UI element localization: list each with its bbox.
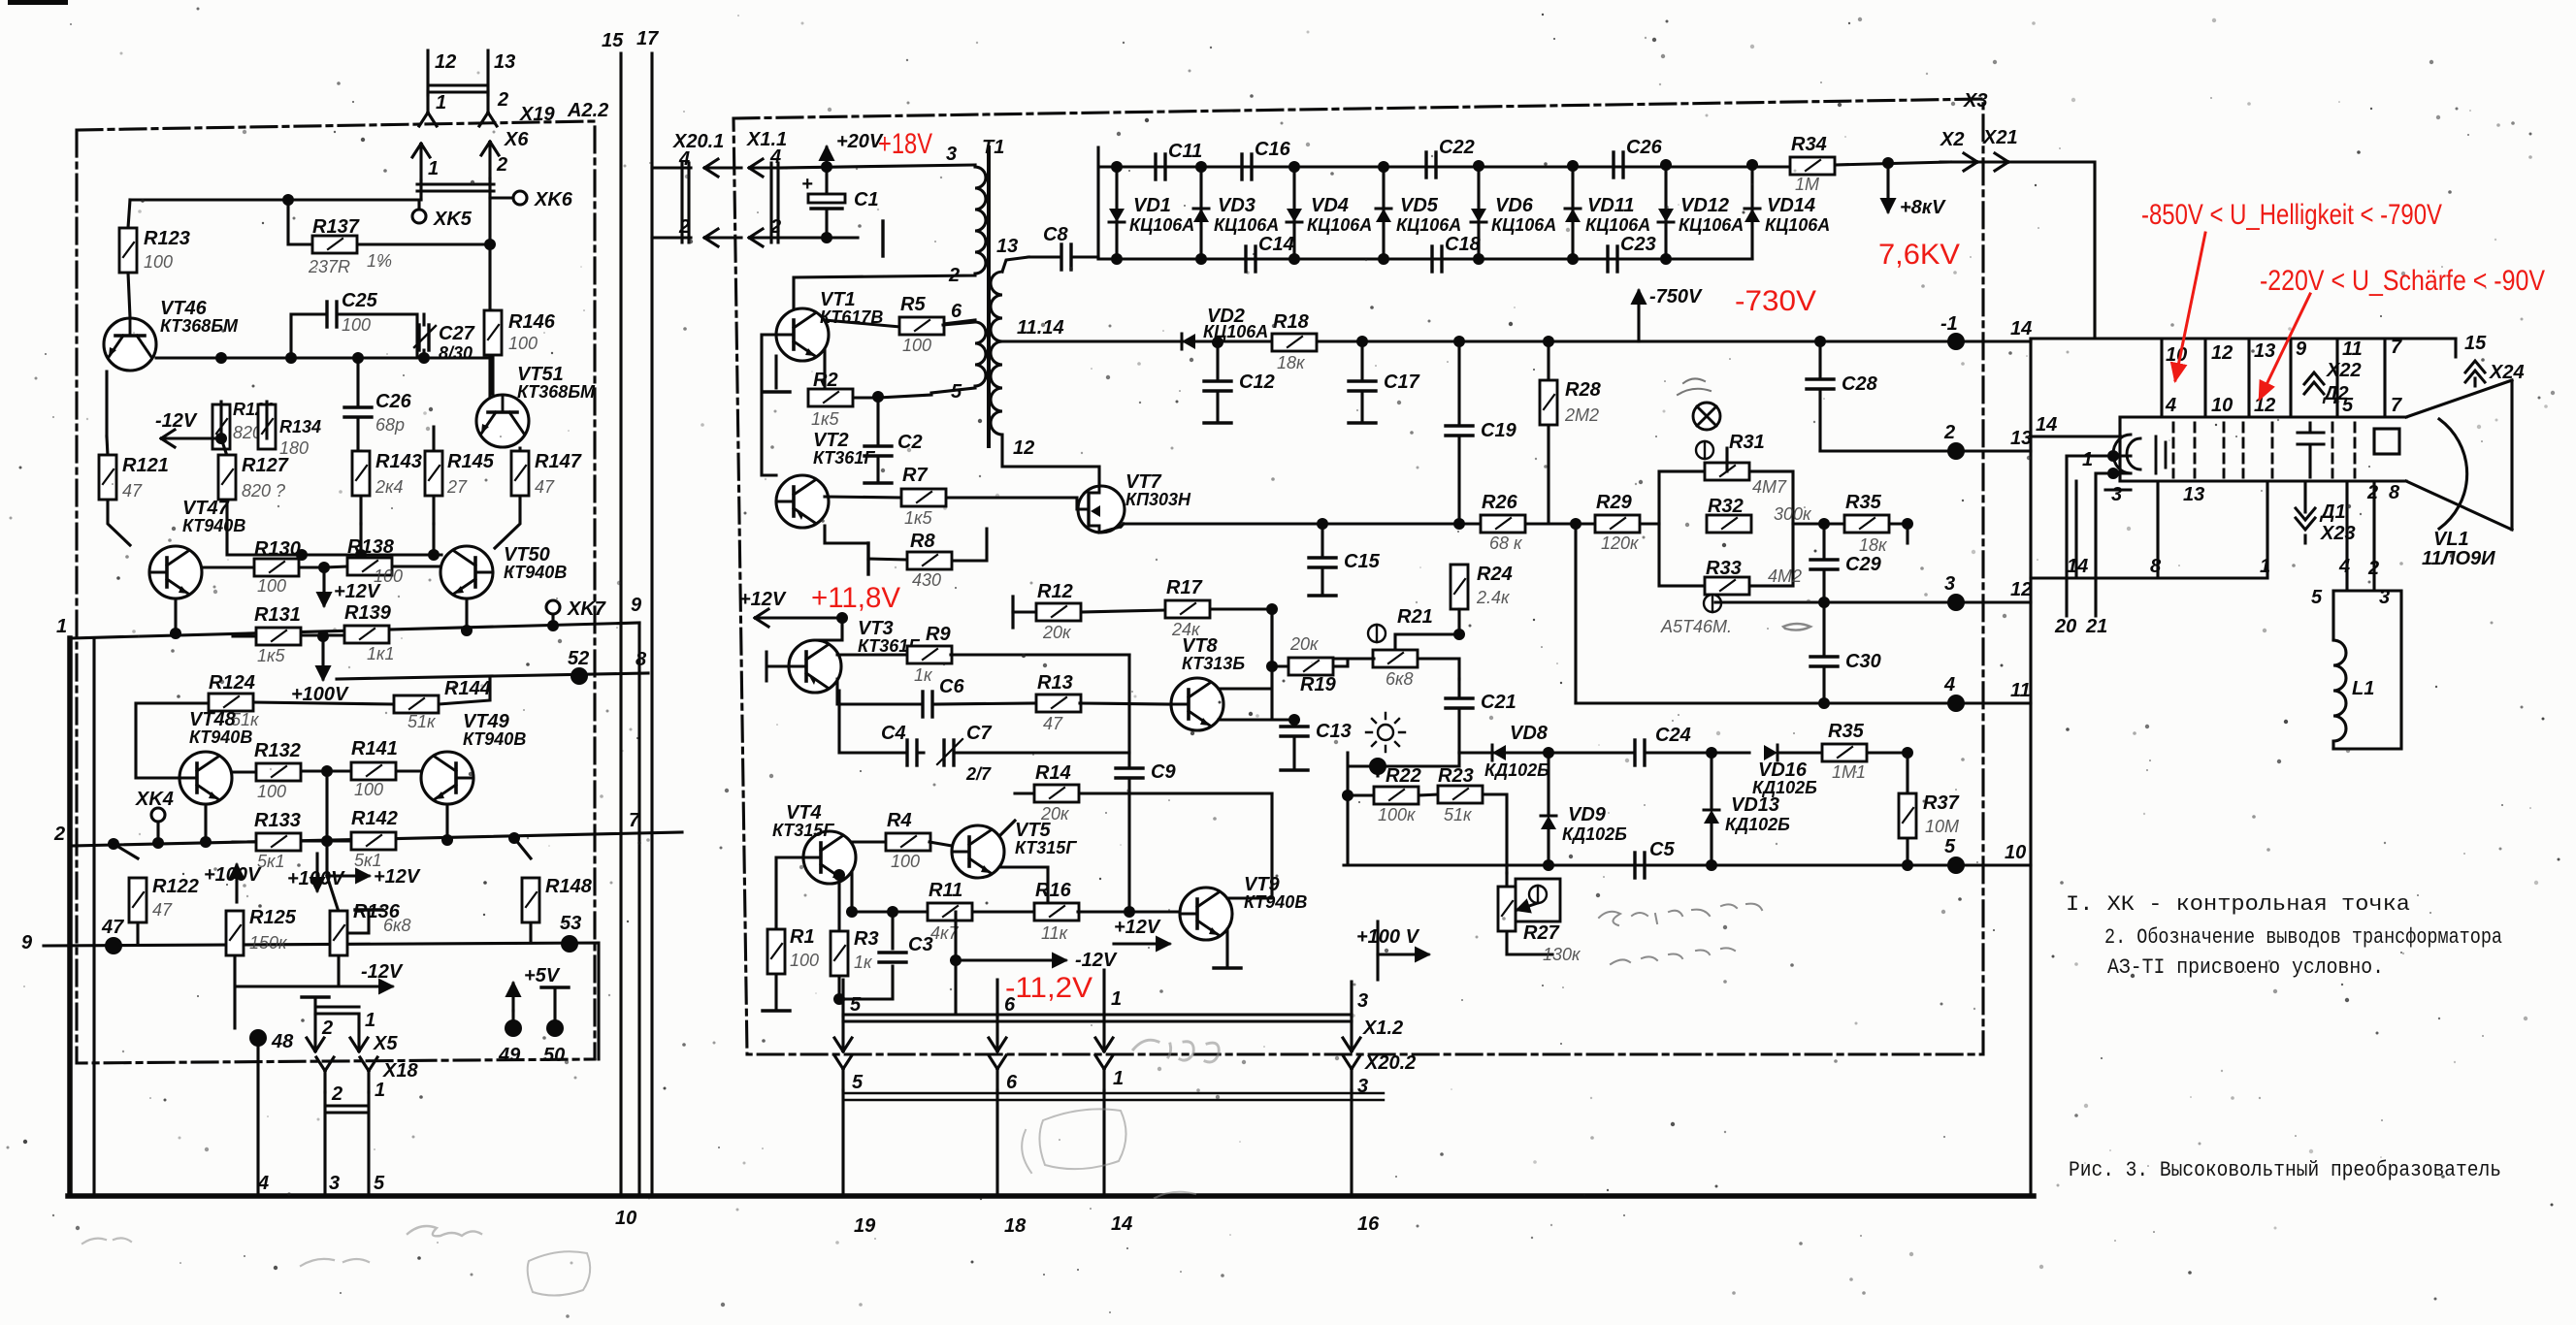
- connector X1.2 pins: [843, 970, 1352, 1021]
- resistor R18: [1272, 334, 1317, 351]
- svg-text:2: 2: [678, 216, 690, 238]
- resistor R126: [212, 404, 230, 449]
- svg-text:VD9: VD9: [1568, 804, 1607, 825]
- svg-text:R125: R125: [249, 907, 297, 928]
- svg-text:R31: R31: [1729, 432, 1765, 453]
- svg-text:КЦ106А: КЦ106А: [1307, 215, 1372, 235]
- svg-text:Рис. 3. Высоковольтный преобра: Рис. 3. Высоковольтный преобразователь: [2069, 1158, 2501, 1182]
- svg-text:R27: R27: [1523, 922, 1560, 944]
- svg-text:47: 47: [152, 900, 173, 920]
- voltage +100V mid: [1378, 953, 1428, 955]
- middle block border: [734, 99, 1983, 1054]
- resistor R130: [202, 566, 324, 568]
- svg-text:48: 48: [271, 1031, 294, 1052]
- svg-text:1к5: 1к5: [257, 646, 286, 665]
- wire X20.2 ribbon: [843, 1093, 1384, 1100]
- svg-text:КЦ106А: КЦ106А: [1129, 215, 1194, 235]
- svg-text:2М2: 2М2: [1564, 405, 1599, 425]
- resistor R33: [1705, 577, 1749, 595]
- voltage +100V down: [315, 854, 318, 890]
- resistor R133: [233, 841, 351, 842]
- resistor R145: [432, 427, 435, 524]
- svg-text:1: 1: [2082, 449, 2093, 470]
- svg-text:15: 15: [2464, 333, 2487, 354]
- resistor R22: [1348, 794, 1507, 873]
- svg-text:1: 1: [436, 92, 446, 113]
- svg-text:КД102Б: КД102Б: [1562, 824, 1627, 844]
- svg-text:R35: R35: [1845, 492, 1882, 513]
- svg-text:5: 5: [850, 994, 862, 1016]
- sun symbol: [1366, 713, 1405, 752]
- potentiometer R21: [1395, 609, 1459, 679]
- svg-text:+100V: +100V: [287, 868, 345, 889]
- svg-text:68р: 68р: [375, 415, 405, 435]
- svg-text:L1: L1: [2352, 678, 2374, 699]
- lamp: [1693, 403, 1720, 430]
- svg-text:7: 7: [629, 810, 640, 831]
- svg-text:C11: C11: [1168, 141, 1202, 162]
- connector X20.2 pins: [834, 1055, 852, 1090]
- resistor R37: [1906, 753, 1908, 865]
- diode VD14: [1750, 167, 1753, 259]
- svg-text:R2: R2: [813, 370, 838, 391]
- svg-text:КТ940В: КТ940В: [1244, 892, 1307, 912]
- connector X5: [302, 996, 329, 998]
- box R31 R32 R33: [1659, 471, 1793, 586]
- svg-text:КТ940В: КТ940В: [189, 727, 252, 747]
- svg-text:R28: R28: [1565, 379, 1602, 401]
- transistor VT46: [104, 318, 156, 371]
- svg-text:3: 3: [2111, 484, 2122, 505]
- svg-text:2к4: 2к4: [375, 477, 404, 497]
- resistor R141: [396, 769, 421, 772]
- svg-text:X1.2: X1.2: [1362, 1018, 1403, 1039]
- resistor R121: [107, 436, 130, 545]
- resistor R19: [1272, 659, 1348, 666]
- voltage +100V up: [235, 865, 238, 902]
- svg-text:100: 100: [508, 334, 538, 353]
- diode VD11: [1571, 167, 1574, 259]
- wire R21 left: [1335, 657, 1374, 660]
- resistor R24: [1451, 565, 1468, 609]
- svg-text:КТ368БМ: КТ368БМ: [517, 382, 596, 402]
- svg-text:-750V: -750V: [1649, 286, 1703, 307]
- svg-text:5: 5: [951, 381, 962, 403]
- connector X24: [2465, 361, 2485, 382]
- resistor R4: [886, 833, 930, 851]
- svg-text:+12V: +12V: [334, 581, 381, 602]
- scan edge artifact: [8, 0, 68, 5]
- svg-text:50: 50: [543, 1045, 565, 1066]
- svg-text:R145: R145: [447, 451, 495, 472]
- wire left inner vertical: [92, 638, 95, 1196]
- svg-text:13: 13: [2254, 340, 2275, 362]
- resistor R127: [221, 438, 227, 524]
- transistor VT2: [776, 475, 829, 528]
- svg-text:49: 49: [498, 1045, 521, 1066]
- voltage +12V mid: [1114, 942, 1169, 945]
- svg-text:-11,2V: -11,2V: [1005, 972, 1092, 1004]
- svg-text:12: 12: [435, 51, 456, 73]
- svg-text:2: 2: [497, 89, 508, 111]
- capacitor C18: [1432, 246, 1442, 272]
- wire bus 5-10: [1344, 863, 2031, 866]
- svg-text:5к1: 5к1: [257, 852, 285, 871]
- svg-text:1к5: 1к5: [904, 508, 933, 528]
- svg-text:КД102Б: КД102Б: [1484, 760, 1549, 780]
- wire xk row: [130, 198, 512, 210]
- connector X20.1: [652, 163, 691, 242]
- resistor R35: [1793, 522, 1908, 525]
- wire VT46 collector row: [107, 244, 490, 436]
- svg-text:C21: C21: [1481, 692, 1516, 713]
- svg-text:18к: 18к: [1277, 353, 1306, 372]
- svg-text:R3: R3: [854, 928, 879, 950]
- svg-text:8: 8: [2389, 482, 2400, 503]
- connector X6: [412, 144, 430, 180]
- diode VD1: [1115, 167, 1118, 259]
- svg-text:КЦ106А: КЦ106А: [1203, 322, 1268, 341]
- svg-text:VD11: VD11: [1587, 195, 1635, 216]
- resistor R14: [1015, 792, 1272, 794]
- pot under R33: [1704, 595, 1721, 612]
- svg-text:+12V: +12V: [374, 866, 421, 888]
- svg-text:2: 2: [1943, 422, 1955, 443]
- svg-text:R146: R146: [508, 311, 556, 333]
- capacitor C9: [1127, 655, 1130, 912]
- svg-text:R1: R1: [790, 926, 815, 948]
- resistor R137: [288, 200, 490, 244]
- svg-text:R133: R133: [254, 810, 301, 831]
- svg-text:R137: R137: [312, 216, 360, 238]
- resistor R9: [907, 646, 952, 663]
- svg-text:6к8: 6к8: [383, 916, 411, 935]
- svg-text:-1: -1: [1940, 313, 1958, 335]
- svg-text:КЦ106А: КЦ106А: [1679, 215, 1744, 235]
- svg-text:15: 15: [602, 30, 624, 51]
- svg-text:3: 3: [1357, 990, 1368, 1012]
- svg-text:C9: C9: [1151, 761, 1176, 783]
- transistor VT4: [803, 831, 856, 884]
- svg-text:+12V: +12V: [1114, 917, 1161, 938]
- capacitor C2: [876, 397, 879, 481]
- svg-text:6: 6: [1006, 1072, 1018, 1093]
- svg-text:C24: C24: [1655, 725, 1691, 746]
- potentiometer R27: [1507, 873, 1552, 954]
- svg-text:300к: 300к: [1774, 504, 1812, 524]
- svg-text:10: 10: [615, 1208, 636, 1229]
- svg-text:Д2: Д2: [2322, 383, 2349, 404]
- svg-text:R23: R23: [1438, 765, 1474, 787]
- svg-text:C3: C3: [908, 934, 933, 955]
- svg-text:14: 14: [2010, 318, 2032, 339]
- svg-text:КТ940В: КТ940В: [182, 516, 245, 535]
- svg-text:20: 20: [2054, 616, 2076, 637]
- svg-text:C18: C18: [1445, 234, 1482, 255]
- svg-text:R19: R19: [1300, 674, 1337, 695]
- svg-text:2: 2: [321, 1018, 333, 1039]
- wire right inner vertical left block: [637, 623, 640, 1196]
- svg-text:27: 27: [446, 477, 468, 497]
- svg-text:R33: R33: [1706, 558, 1742, 579]
- svg-text:3: 3: [1944, 573, 1955, 595]
- svg-text:КД102Б: КД102Б: [1752, 778, 1817, 797]
- svg-text:R142: R142: [351, 808, 398, 829]
- svg-text:1%: 1%: [367, 251, 392, 271]
- capacitor C22: [1426, 152, 1436, 178]
- svg-text:5: 5: [2311, 587, 2323, 608]
- svg-text:4М7: 4М7: [1752, 477, 1787, 497]
- CRT neck: [2120, 380, 2512, 530]
- svg-text:2: 2: [331, 1083, 342, 1105]
- svg-text:68 к: 68 к: [1489, 533, 1523, 553]
- capacitor C4: [839, 691, 924, 753]
- resistor R32: [1707, 515, 1751, 533]
- resistor R3: [839, 875, 893, 999]
- resistor R134: [258, 404, 276, 449]
- capacitor C21: [1457, 679, 1460, 753]
- svg-text:R131: R131: [254, 604, 301, 626]
- resistor R16: [1034, 903, 1079, 921]
- svg-text:XK5: XK5: [433, 209, 473, 230]
- resistor R138: [324, 566, 440, 567]
- svg-text:3: 3: [946, 144, 957, 165]
- svg-text:10: 10: [2005, 842, 2026, 863]
- svg-text:9: 9: [2296, 339, 2307, 360]
- svg-text:100: 100: [902, 336, 931, 355]
- svg-text:КП303Н: КП303Н: [1125, 490, 1191, 509]
- transistor VT3: [789, 640, 841, 693]
- svg-text:X20.2: X20.2: [1364, 1052, 1416, 1074]
- wire bottom chain bus: [1098, 257, 1752, 260]
- svg-text:A5T46M.: A5T46M.: [1660, 617, 1732, 636]
- svg-text:X19: X19: [519, 104, 555, 125]
- svg-text:R13: R13: [1037, 672, 1073, 694]
- svg-text:C13: C13: [1316, 721, 1352, 742]
- svg-text:6к8: 6к8: [1386, 669, 1414, 689]
- svg-text:R130: R130: [254, 538, 301, 560]
- svg-text:XK7: XK7: [567, 598, 606, 620]
- svg-text:4: 4: [257, 1173, 269, 1194]
- svg-text:13: 13: [494, 51, 515, 73]
- svg-text:2: 2: [53, 824, 65, 845]
- svg-text:VD4: VD4: [1311, 195, 1349, 216]
- svg-text:КТ313Б: КТ313Б: [1182, 654, 1245, 673]
- svg-text:X23: X23: [2320, 523, 2356, 544]
- svg-text:3: 3: [329, 1173, 340, 1194]
- svg-text:КТ361Г: КТ361Г: [813, 448, 875, 468]
- capacitor C1: [825, 167, 828, 238]
- T1 primary winding: [794, 165, 986, 308]
- resistor R35b: [1777, 751, 1908, 754]
- svg-text:C26: C26: [375, 391, 412, 412]
- svg-text:11.14: 11.14: [1017, 317, 1064, 339]
- svg-text:X3: X3: [1963, 90, 1987, 112]
- svg-text:КЦ106А: КЦ106А: [1396, 215, 1461, 235]
- diode VD9: [1541, 816, 1556, 829]
- svg-text:6: 6: [1004, 994, 1016, 1016]
- svg-text:X22: X22: [2326, 360, 2362, 381]
- svg-text:10М: 10М: [1925, 817, 1959, 836]
- capacitor C27 trimmer: [419, 325, 429, 350]
- svg-text:100к: 100к: [1378, 805, 1417, 824]
- svg-text:51к: 51к: [408, 712, 437, 731]
- node 48 49 50: [249, 1029, 267, 1047]
- resistor R13: [1036, 695, 1081, 712]
- svg-text:C1: C1: [854, 189, 879, 210]
- svg-text:1к: 1к: [854, 953, 873, 972]
- svg-text:X21: X21: [1982, 127, 2018, 148]
- svg-text:VD12: VD12: [1680, 195, 1729, 216]
- svg-text:53: 53: [560, 913, 581, 934]
- svg-text:A2.2: A2.2: [567, 100, 608, 121]
- svg-text:12: 12: [2010, 579, 2032, 600]
- capacitor C14: [1246, 246, 1255, 272]
- svg-text:-730V: -730V: [1735, 285, 1816, 317]
- svg-text:1к5: 1к5: [811, 409, 840, 429]
- resistor R142: [351, 832, 396, 850]
- wire bus 9-47-53: [44, 943, 599, 1059]
- svg-text:R148: R148: [545, 876, 593, 897]
- wire bus 2-13: [1820, 449, 2031, 452]
- gnd bar 50: [541, 986, 569, 988]
- svg-text:150к: 150к: [249, 933, 288, 953]
- CRT anode square: [2374, 429, 2399, 454]
- test point XK5: [412, 210, 426, 223]
- resistor R136: [327, 841, 369, 986]
- svg-text:C22: C22: [1439, 137, 1475, 158]
- resistor R12: [1011, 597, 1014, 628]
- resistor R148: [514, 838, 531, 943]
- resistor R34: [1790, 157, 1835, 175]
- wire 15 vertical: [619, 53, 622, 1196]
- svg-text:100: 100: [790, 951, 819, 970]
- svg-text:13: 13: [996, 236, 1018, 257]
- svg-text:КТ368БМ: КТ368БМ: [160, 316, 239, 336]
- diode VD6: [1477, 167, 1480, 259]
- junction dots ladder: [1111, 161, 1123, 173]
- svg-text:100: 100: [257, 576, 286, 596]
- wire mid gate bus: [1124, 522, 1659, 525]
- svg-text:1М1: 1М1: [1832, 762, 1866, 782]
- capacitor C24: [1635, 740, 1645, 765]
- wire X3 right verticals: [2029, 339, 2032, 1196]
- svg-text:R127: R127: [242, 455, 289, 476]
- svg-text:100: 100: [354, 780, 383, 799]
- svg-text:R4: R4: [887, 810, 912, 831]
- svg-text:КТ315Г: КТ315Г: [1015, 838, 1077, 857]
- capacitor C13: [1292, 720, 1295, 768]
- svg-text:51к: 51к: [1444, 805, 1473, 824]
- svg-text:КТ940В: КТ940В: [504, 563, 567, 582]
- svg-text:18к: 18к: [1859, 535, 1888, 555]
- svg-text:XK6: XK6: [534, 189, 573, 210]
- block A2.2 border: [77, 121, 595, 1063]
- transistor VT5: [952, 825, 1004, 878]
- inductor L1: [2333, 640, 2346, 749]
- svg-text:+100 V: +100 V: [1356, 926, 1420, 948]
- svg-text:13: 13: [2010, 428, 2032, 449]
- capacitor C28: [1818, 341, 1821, 451]
- svg-text:9: 9: [631, 595, 642, 616]
- svg-text:21: 21: [2085, 616, 2107, 637]
- svg-text:R34: R34: [1791, 134, 1827, 155]
- svg-text:1: 1: [2260, 556, 2270, 577]
- svg-text:КТ315Г: КТ315Г: [772, 821, 834, 840]
- svg-text:4: 4: [2338, 556, 2350, 577]
- svg-text:4М2: 4М2: [1768, 566, 1802, 586]
- svg-text:100: 100: [891, 852, 920, 871]
- svg-text:820 ?: 820 ?: [242, 481, 285, 501]
- resistor R124: [136, 676, 490, 778]
- diode VD5: [1382, 167, 1385, 259]
- svg-text:C8: C8: [1043, 224, 1068, 245]
- svg-text:5: 5: [852, 1072, 864, 1093]
- capacitor C7 trimmer: [944, 740, 954, 765]
- resistor R5: [899, 317, 944, 335]
- svg-text:VD14: VD14: [1767, 195, 1815, 216]
- diode VD3: [1199, 167, 1202, 259]
- svg-text:C26: C26: [1626, 137, 1663, 158]
- svg-text:12: 12: [1013, 437, 1034, 459]
- svg-text:T1: T1: [982, 137, 1004, 158]
- capacitor C26b: [1614, 152, 1623, 178]
- svg-text:КТ940В: КТ940В: [463, 729, 526, 749]
- diode VD16: [1764, 745, 1777, 760]
- node 5: [1947, 856, 1965, 874]
- test point XK6: [513, 191, 527, 205]
- voltage +8kV: [1882, 157, 1894, 169]
- svg-text:C7: C7: [966, 723, 992, 744]
- svg-text:7: 7: [2391, 395, 2402, 416]
- svg-text:R11: R11: [929, 880, 962, 901]
- svg-text:2: 2: [2367, 558, 2379, 579]
- svg-text:КД102Б: КД102Б: [1725, 815, 1790, 834]
- svg-text:+18V: +18V: [878, 128, 932, 160]
- diode VD13: [1704, 810, 1719, 824]
- connector X19: [428, 50, 488, 95]
- connector box top: [2031, 339, 2456, 417]
- svg-text:I. ХК - контрольная точка: I. ХК - контрольная точка: [2066, 892, 2410, 917]
- transistor VT51: [476, 395, 529, 447]
- resistor R132: [232, 771, 351, 772]
- svg-text:11ЛО9И: 11ЛО9И: [2422, 548, 2495, 569]
- resistor R146: [490, 310, 493, 394]
- resistor R131: [233, 635, 344, 636]
- diode VD4: [1292, 167, 1295, 259]
- svg-text:20к: 20к: [1289, 634, 1320, 654]
- svg-text:237R: 237R: [308, 257, 350, 276]
- svg-text:20к: 20к: [1042, 623, 1072, 642]
- svg-text:9: 9: [21, 932, 33, 953]
- transistor VT1: [776, 308, 829, 361]
- pencil scribble RA25: [408, 1226, 481, 1236]
- svg-text:1: 1: [365, 1010, 375, 1031]
- svg-text:X2: X2: [1940, 129, 1964, 150]
- svg-text:2: 2: [496, 154, 507, 176]
- voltage +12V: [322, 567, 325, 605]
- svg-text:C12: C12: [1239, 372, 1275, 393]
- resistor R147: [495, 448, 520, 548]
- svg-text:VL1: VL1: [2433, 529, 2469, 550]
- svg-text:100: 100: [342, 315, 371, 335]
- svg-text:R17: R17: [1166, 577, 1203, 598]
- svg-text:1: 1: [375, 1080, 385, 1101]
- svg-text:+100V: +100V: [204, 864, 262, 886]
- wire bus 52-8: [337, 673, 648, 679]
- svg-text:12: 12: [2254, 395, 2275, 416]
- svg-text:10: 10: [2166, 344, 2187, 366]
